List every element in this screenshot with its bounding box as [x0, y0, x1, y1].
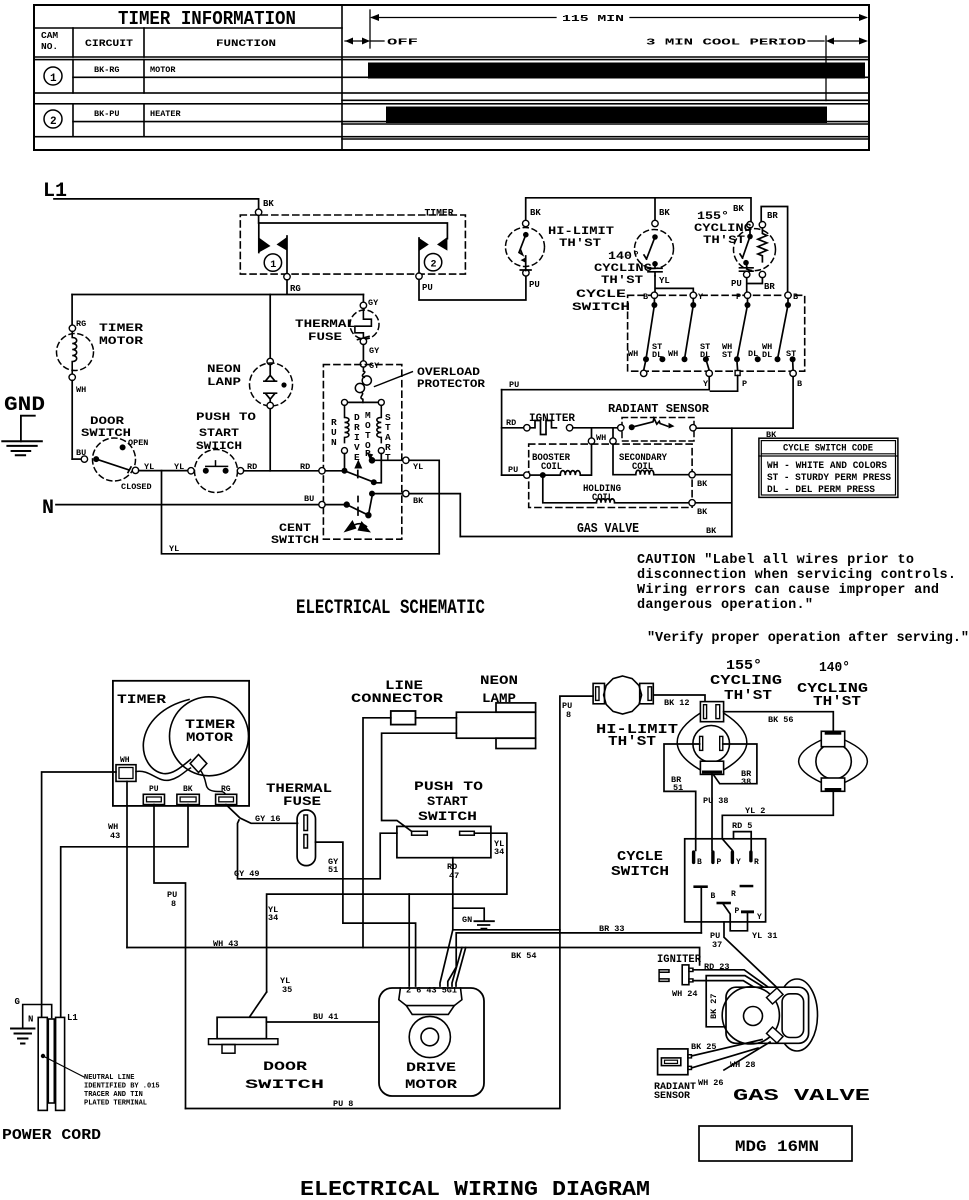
door switch label — [245, 1059, 324, 1092]
centrifugal switch main blade — [325, 491, 375, 519]
svg-text:G: G — [15, 997, 20, 1007]
155 label (wiring) — [710, 658, 782, 704]
svg-text:SENSOR: SENSOR — [654, 1091, 690, 1102]
svg-text:BK: BK — [697, 479, 708, 489]
svg-text:CYCLING: CYCLING — [594, 263, 652, 275]
svg-text:CONNECTOR: CONNECTOR — [351, 691, 443, 706]
svg-text:FUSE: FUSE — [308, 332, 343, 344]
node RG terminal below cam 1 — [284, 274, 290, 280]
svg-text:Wiring errors can cause improp: Wiring errors can cause improper and — [637, 583, 939, 598]
wire WH box left to N prong — [42, 772, 116, 1017]
node RD at motor box edge — [319, 468, 325, 474]
wire WH 43 stem — [126, 781, 128, 947]
cycle switch bottom terminals — [641, 359, 803, 389]
svg-text:DOOR: DOOR — [90, 416, 125, 428]
power cord labels — [15, 997, 79, 1025]
svg-text:BU: BU — [76, 448, 86, 458]
svg-text:RD: RD — [506, 418, 516, 428]
svg-text:YL 2: YL 2 — [745, 806, 765, 816]
radiant sensor switch — [618, 418, 697, 431]
timer dashed box — [240, 215, 465, 274]
igniter (wiring) — [659, 965, 693, 985]
row block 1 (motor) — [34, 60, 869, 93]
svg-text:SWITCH: SWITCH — [611, 864, 669, 880]
svg-text:SWITCH: SWITCH — [245, 1077, 324, 1092]
svg-text:WH 43: WH 43 — [213, 939, 239, 949]
svg-text:SWIICH: SWIICH — [196, 441, 242, 453]
secondary coil — [613, 444, 708, 489]
wire YL 2 — [722, 791, 833, 850]
svg-text:CAM: CAM — [41, 30, 58, 41]
door switch body — [209, 1017, 278, 1053]
wire 140 to cycle switch B and Y — [655, 276, 693, 292]
svg-text:BK: BK — [706, 526, 717, 536]
140 label — [594, 251, 652, 287]
cycle switch blade 2 — [682, 299, 697, 363]
svg-text:disconnection when servicing c: disconnection when servicing controls. — [637, 568, 956, 583]
svg-text:TH'ST: TH'ST — [703, 235, 745, 247]
svg-text:Y: Y — [698, 292, 704, 302]
svg-text:N: N — [331, 437, 337, 448]
neon lamp label — [207, 364, 242, 389]
svg-text:PU: PU — [529, 280, 540, 290]
svg-text:WH: WH — [120, 756, 130, 765]
svg-text:TH'ST: TH'ST — [601, 275, 643, 287]
svg-text:BK 56: BK 56 — [768, 715, 794, 725]
radiant sensor dashed box — [622, 418, 694, 442]
radiant sensor (wiring) — [658, 1049, 692, 1075]
centrifugal switch start blade — [325, 453, 381, 486]
node B top terminal — [651, 292, 657, 298]
svg-text:R: R — [754, 858, 759, 867]
power cord prongs — [38, 1017, 64, 1110]
svg-text:COIL: COIL — [592, 493, 613, 504]
thermal fuse label — [295, 319, 356, 344]
wire YL return bus — [162, 471, 440, 554]
svg-text:BK: BK — [183, 785, 193, 794]
svg-text:N: N — [42, 497, 54, 520]
svg-text:NEON: NEON — [207, 364, 241, 376]
svg-text:DL: DL — [700, 350, 710, 360]
3 min cool period dimension arrows — [808, 36, 868, 101]
svg-text:TRACER AND TIN: TRACER AND TIN — [84, 1091, 143, 1099]
svg-text:MOTOR: MOTOR — [150, 65, 176, 75]
push to start switch — [188, 450, 244, 493]
wire YL from start junction — [372, 459, 403, 461]
svg-text:GAS VALVE: GAS VALVE — [577, 521, 639, 537]
svg-text:BK-RG: BK-RG — [94, 65, 120, 75]
svg-text:RG: RG — [221, 785, 231, 794]
caution note text — [637, 553, 969, 646]
svg-text:PU: PU — [731, 279, 742, 289]
wire timer internal bus — [259, 216, 448, 239]
wire BK 27 — [706, 976, 774, 1027]
table outer border — [34, 5, 869, 150]
svg-text:43: 43 — [110, 831, 120, 841]
line connector label — [351, 678, 443, 706]
svg-text:GY 49: GY 49 — [234, 869, 260, 879]
svg-text:MOTOR: MOTOR — [405, 1077, 457, 1092]
holding coil label — [583, 484, 621, 504]
svg-text:SWITCH: SWITCH — [271, 535, 319, 547]
svg-text:"Verify proper operation after: "Verify proper operation after serving." — [647, 631, 969, 646]
svg-text:155°: 155° — [697, 211, 729, 223]
wire YL34 connector drop — [408, 894, 410, 986]
neon lamp body — [456, 703, 535, 749]
svg-text:TIMER: TIMER — [185, 718, 236, 732]
svg-text:ELECTRICAL WIRING DIAGRAM: ELECTRICAL WIRING DIAGRAM — [300, 1179, 650, 1200]
wire neon lamp lower to PTS slot1 — [382, 733, 457, 831]
secondary coil label — [619, 453, 667, 473]
svg-text:34: 34 — [268, 913, 278, 923]
svg-text:DRIVE: DRIVE — [406, 1060, 456, 1075]
motor timing black bar — [368, 63, 865, 79]
overload protector — [355, 367, 371, 402]
thermal fuse label — [266, 781, 332, 809]
drive motor circles — [409, 1016, 450, 1057]
wire RD 23 — [693, 970, 772, 990]
svg-text:GND: GND — [4, 394, 45, 417]
wire BR 33 bus — [448, 933, 702, 986]
timer box — [113, 681, 249, 806]
overload protector label + pointer — [375, 367, 486, 391]
svg-text:GY: GY — [369, 361, 380, 371]
wire BK returns to right edge — [695, 428, 732, 536]
cent switch label — [271, 523, 319, 547]
cycle switch box (wiring) — [685, 839, 766, 922]
svg-text:B: B — [711, 892, 716, 901]
115 MIN dimension line — [370, 10, 868, 48]
svg-text:NEUTRAL LINE: NEUTRAL LINE — [84, 1074, 134, 1082]
wire connector fan diagonals — [440, 930, 466, 986]
svg-text:MOTOR: MOTOR — [99, 336, 144, 348]
wire RUN winding to RD junction — [344, 454, 346, 471]
svg-text:LANP: LANP — [207, 377, 242, 389]
svg-text:CYCLE: CYCLE — [576, 289, 627, 301]
door switch — [72, 438, 139, 481]
wire PU 38 — [711, 774, 713, 850]
drive motor windings — [342, 399, 385, 453]
neon lamp — [250, 295, 293, 409]
wire PU bus down to igniter row and gas valve left edge — [501, 390, 503, 475]
node Y top terminal — [690, 292, 696, 298]
svg-text:RD 5: RD 5 — [732, 821, 752, 831]
svg-text:PU 38: PU 38 — [703, 796, 729, 806]
holding coil — [543, 475, 708, 517]
svg-text:THERMAL: THERMAL — [295, 319, 356, 331]
svg-text:MDG 16MN: MDG 16MN — [735, 1138, 819, 1156]
wire WH down to door switch row — [71, 381, 73, 460]
svg-text:B: B — [697, 858, 702, 867]
svg-text:2: 2 — [431, 260, 437, 271]
table header text — [41, 8, 296, 52]
timeline area extra row lines — [342, 100, 869, 139]
cycle switch bottom pin P — [717, 902, 748, 931]
timer WH terminal — [116, 756, 136, 781]
cycle switch bottom pin R — [731, 885, 753, 899]
svg-text:WH: WH — [668, 349, 678, 359]
drive motor label — [405, 1060, 457, 1092]
wire BK 25 — [692, 1040, 763, 1057]
svg-text:YL: YL — [413, 462, 423, 472]
svg-text:YL: YL — [169, 544, 179, 554]
wire L1 feed — [54, 199, 259, 209]
svg-text:CLOSED: CLOSED — [121, 482, 152, 492]
svg-text:GY: GY — [369, 346, 380, 356]
hi-limit thermostat — [506, 208, 545, 290]
wire RG bus — [72, 280, 363, 295]
svg-text:1: 1 — [270, 260, 276, 271]
svg-text:CIRCUIT: CIRCUIT — [85, 39, 133, 50]
svg-text:NEON: NEON — [480, 673, 518, 688]
svg-text:L1: L1 — [67, 1013, 78, 1023]
heater timing black bar — [386, 107, 827, 124]
svg-text:B: B — [643, 292, 648, 302]
svg-text:RG: RG — [76, 319, 86, 329]
svg-text:OPEN: OPEN — [128, 438, 148, 448]
svg-text:WH - WHITE AND COLORS: WH - WHITE AND COLORS — [767, 461, 887, 472]
neutral line note — [84, 1074, 160, 1108]
timer PU terminal — [143, 785, 164, 805]
hi-limit label (wiring) — [596, 722, 678, 750]
svg-text:8: 8 — [171, 899, 176, 909]
svg-text:DL: DL — [652, 350, 662, 360]
svg-text:BK: BK — [733, 204, 744, 214]
svg-text:TIMER INFORMATION: TIMER INFORMATION — [118, 8, 296, 30]
wire GY 51 from fuse — [316, 842, 416, 986]
cycle switch label — [572, 289, 630, 314]
svg-text:YL 31: YL 31 — [752, 931, 778, 941]
wire RD 47 from PTS bottom — [453, 858, 560, 930]
svg-text:WH: WH — [596, 433, 606, 443]
svg-text:P: P — [742, 379, 747, 389]
node PU terminal below cam 2 — [416, 273, 422, 279]
node B2 top terminal — [785, 292, 791, 298]
cycle switch dashed box — [628, 295, 805, 371]
gas valve dashed box — [529, 444, 692, 507]
svg-text:HEATER: HEATER — [150, 109, 182, 119]
table header row lines — [34, 5, 869, 150]
OFF dimension arrows — [345, 38, 384, 45]
push to start label — [414, 779, 483, 824]
155 cycling thermostat (wiring) — [677, 702, 747, 775]
svg-text:MOTOR: MOTOR — [186, 731, 234, 745]
wire BR 51 — [664, 744, 700, 850]
svg-text:PU: PU — [508, 465, 518, 475]
MDG 16MN box — [699, 1126, 852, 1161]
cam no 1 circled — [44, 67, 62, 85]
booster coil label — [532, 453, 570, 473]
svg-text:BK 12: BK 12 — [664, 698, 690, 708]
neutral line pointer — [41, 1054, 84, 1077]
svg-text:TIMER: TIMER — [99, 323, 144, 335]
thermal fuse body — [297, 810, 315, 866]
svg-text:TH'ST: TH'ST — [724, 688, 772, 704]
140 cycling thermostat — [635, 208, 674, 286]
wire WH 24 — [693, 981, 770, 997]
wire BR bracket over 155 — [761, 207, 787, 293]
svg-text:2: 2 — [50, 116, 57, 128]
svg-text:TIMER: TIMER — [117, 692, 166, 707]
svg-text:RD: RD — [300, 462, 310, 472]
timer squiggle wires — [136, 768, 191, 780]
wire timer PU stem (PU 8) — [154, 805, 186, 1109]
svg-text:CYCLE SWITCH CODE: CYCLE SWITCH CODE — [783, 444, 873, 455]
svg-text:FUSE: FUSE — [283, 794, 321, 809]
svg-text:FUNCTION: FUNCTION — [216, 39, 276, 50]
svg-text:IGNITER: IGNITER — [657, 954, 701, 966]
svg-text:P: P — [717, 858, 722, 867]
cam switch 1 — [259, 223, 287, 273]
door switch labels — [81, 416, 154, 492]
svg-text:GY 16: GY 16 — [255, 814, 281, 824]
drive motor box — [379, 988, 484, 1096]
svg-text:140°: 140° — [608, 251, 640, 263]
wire YL 35 to door switch — [250, 992, 267, 1017]
row block 2 (heater) — [34, 104, 869, 137]
svg-text:SWITCH: SWITCH — [418, 809, 477, 824]
svg-text:PUSH TO: PUSH TO — [196, 412, 257, 424]
cycle switch contact labels — [628, 342, 796, 360]
svg-text:P: P — [736, 292, 741, 302]
155 cycling thermostat — [731, 204, 778, 292]
wire RD 5 stub — [734, 832, 752, 851]
timer motor circle — [170, 697, 249, 776]
wire GY 49 bus — [238, 820, 397, 879]
timer motor label — [99, 323, 144, 348]
wire neon lamp down to RD wire — [269, 409, 271, 471]
svg-text:PU: PU — [509, 380, 519, 390]
svg-text:CYCLING: CYCLING — [710, 673, 782, 689]
node BK terminal above timer — [255, 209, 261, 215]
cycle switch blade 1 — [643, 299, 657, 363]
svg-text:COIL: COIL — [541, 462, 562, 473]
svg-text:BK: BK — [697, 507, 708, 517]
svg-text:OVERLOAD: OVERLOAD — [417, 367, 480, 379]
140 label (wiring) — [797, 660, 868, 710]
wire Y and P to PU bus — [502, 376, 738, 392]
svg-text:CYCLING: CYCLING — [694, 223, 752, 235]
timer cam diamond — [190, 755, 207, 773]
svg-text:START: START — [199, 428, 239, 440]
cam switch 2 — [419, 237, 447, 273]
svg-text:SWITCH: SWITCH — [572, 302, 630, 314]
svg-text:47: 47 — [449, 871, 459, 881]
svg-text:GAS VALVE: GAS VALVE — [733, 1087, 870, 1106]
svg-text:WH: WH — [76, 385, 86, 395]
svg-text:DOOR: DOOR — [263, 1059, 307, 1074]
svg-text:WH 26: WH 26 — [698, 1078, 724, 1088]
svg-text:TH'ST: TH'ST — [608, 734, 656, 750]
svg-text:DL - DEL PERM PRESS: DL - DEL PERM PRESS — [767, 485, 875, 496]
cycle switch bottom pin Y — [741, 910, 762, 922]
svg-text:115 MIN: 115 MIN — [562, 13, 624, 24]
timer BK terminal — [177, 785, 199, 805]
row2 circuit/function labels — [94, 109, 182, 119]
svg-text:WH 24: WH 24 — [672, 989, 698, 999]
svg-text:OFF: OFF — [387, 37, 419, 48]
node PU terminal gas valve — [502, 465, 530, 478]
svg-text:START: START — [427, 794, 468, 809]
svg-text:WH 28: WH 28 — [730, 1060, 756, 1070]
svg-text:BK 25: BK 25 — [691, 1042, 717, 1052]
svg-text:SWITCH: SWITCH — [81, 428, 131, 440]
igniter — [502, 418, 618, 435]
motor vertical labels RUN / DRIVE / MOTOR / START — [331, 410, 391, 469]
svg-text:8: 8 — [566, 710, 571, 720]
svg-text:RADIANT SENSOR: RADIANT SENSOR — [608, 402, 710, 416]
svg-text:BK: BK — [413, 496, 424, 506]
node WH terminals on gas valve — [588, 433, 616, 444]
timer RG terminal — [216, 785, 237, 805]
wire WH 26 — [692, 1048, 759, 1068]
svg-text:34: 34 — [494, 847, 504, 857]
wire line connector left down to WH43 bus — [363, 718, 391, 948]
140 cycling thermostat (wiring) — [799, 731, 868, 791]
svg-text:CAUTION "Label all wires prior: CAUTION "Label all wires prior to — [637, 553, 914, 568]
wire igniter junctions down to gas valve coils — [592, 428, 614, 438]
svg-text:dangerous operation.": dangerous operation." — [637, 598, 813, 613]
svg-text:TH'ST: TH'ST — [813, 694, 861, 710]
svg-text:BK-PU: BK-PU — [94, 109, 120, 119]
svg-text:ST - STURDY PERM PRESS: ST - STURDY PERM PRESS — [767, 473, 891, 484]
wire PU 37 — [724, 922, 779, 990]
row1 circuit/function labels — [94, 65, 176, 75]
drive motor connector — [399, 987, 462, 1015]
svg-text:Y: Y — [703, 379, 709, 389]
cycle switch bottom pin B — [693, 885, 715, 933]
wire BR 38 — [714, 744, 757, 784]
svg-text:Y: Y — [736, 858, 741, 867]
svg-text:140°: 140° — [819, 660, 850, 676]
svg-text:PUSH TO: PUSH TO — [414, 779, 483, 794]
cycle switch blade 3 — [734, 299, 751, 363]
svg-text:GN: GN — [462, 915, 472, 925]
wire BK 12 — [653, 695, 705, 702]
wire PU from cam2 to hi-limit — [419, 276, 526, 300]
node P top terminal — [744, 292, 750, 298]
cycle switch stationary contacts — [659, 356, 795, 362]
svg-text:TIMER: TIMER — [425, 208, 455, 220]
155 label — [694, 211, 752, 247]
svg-text:RD: RD — [247, 462, 257, 472]
wire line connector to neon lamp — [416, 717, 457, 719]
svg-text:YL: YL — [174, 462, 184, 472]
svg-text:3 MIN COOL PERIOD: 3 MIN COOL PERIOD — [646, 37, 806, 48]
svg-text:RG: RG — [290, 284, 301, 294]
push to start labels — [196, 412, 257, 453]
wire BK 56 — [724, 712, 834, 732]
svg-text:BK: BK — [659, 208, 670, 218]
svg-text:BU: BU — [304, 494, 314, 504]
svg-text:51: 51 — [673, 783, 683, 793]
cycle switch blade 4 — [775, 299, 792, 363]
drive motor dashed box — [323, 365, 401, 540]
ground symbol — [2, 416, 42, 456]
svg-text:PROTECTOR: PROTECTOR — [417, 379, 485, 391]
wire B2 down to igniter-sensor row — [696, 377, 793, 429]
wire YL 34 from PTS slot2 — [267, 833, 507, 992]
wire timer RG to thermal fuse (GY 16) — [226, 805, 298, 824]
svg-text:ELECTRICAL SCHEMATIC: ELECTRICAL SCHEMATIC — [296, 597, 485, 620]
svg-text:1: 1 — [50, 73, 57, 85]
neon lamp label — [480, 673, 518, 706]
cent switch action arrows — [344, 520, 372, 533]
svg-text:IDENTIFIED BY .015: IDENTIFIED BY .015 — [84, 1083, 160, 1091]
svg-text:BR: BR — [767, 211, 778, 221]
cam no 2 circled — [44, 110, 62, 128]
svg-text:155°: 155° — [726, 658, 762, 674]
